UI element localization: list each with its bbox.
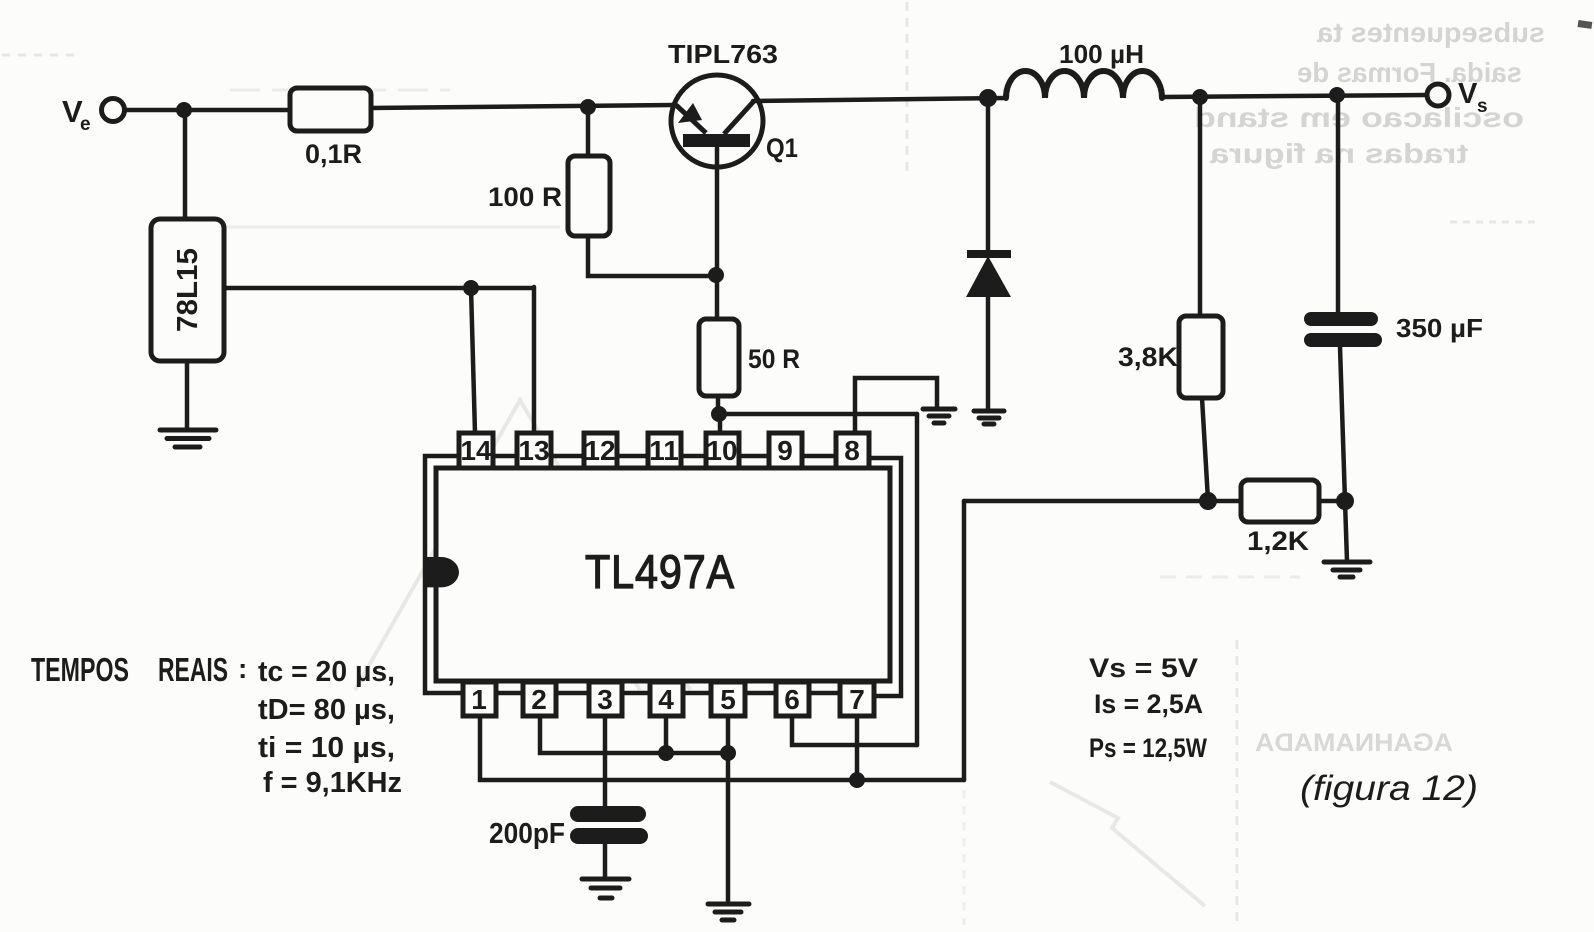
svg-text:100 µH: 100 µH [1059, 39, 1144, 69]
wire: pin 3 drop to 200pF [603, 716, 608, 806]
junction dot 350uF top [1329, 87, 1345, 103]
svg-text:50 R: 50 R [748, 344, 800, 374]
pin 10 box [706, 433, 739, 468]
svg-text:tc = 20 µs,: tc = 20 µs, [258, 656, 395, 688]
pin 2 box [523, 682, 556, 716]
svg-text:ti = 10 µs,: ti = 10 µs, [258, 732, 395, 764]
svg-text:Q1: Q1 [766, 133, 798, 163]
bleed-through faint text top right [1194, 17, 1545, 169]
wire: rail drop to 100R [586, 108, 591, 156]
wire: feedback horizontal to divider node [964, 499, 1208, 504]
svg-text:200pF: 200pF [489, 818, 565, 850]
transistor Q1 base bar [683, 134, 750, 147]
wire: bottom rail pin1 [480, 716, 964, 780]
svg-text:11: 11 [649, 435, 679, 466]
junction dot base node [708, 267, 724, 283]
wire: 3.8K bottom to node [1202, 398, 1208, 500]
wire: pin 8 right jog down to pin 7 right [869, 458, 901, 696]
svg-text:8: 8 [844, 435, 860, 466]
capacitor 350uF plates [1304, 312, 1382, 347]
wire: 200pF to ground [603, 843, 608, 877]
resistor R1 0.1R [290, 88, 371, 131]
svg-text:0,1R: 0,1R [305, 139, 362, 169]
junction dot pin 7 bottom rail [849, 772, 865, 788]
pin 14 box [459, 433, 493, 468]
wire: 350uF node to ground [1345, 501, 1347, 561]
svg-text:12: 12 [584, 435, 615, 466]
svg-text:3,8K: 3,8K [1118, 342, 1179, 372]
svg-text:e: e [80, 114, 91, 135]
svg-text:7: 7 [849, 684, 865, 715]
wire: feedback vertical [962, 501, 967, 780]
svg-text:AGAHNAMADA: AGAHNAMADA [1255, 729, 1453, 757]
pin 5 box [711, 682, 745, 716]
svg-text:f = 9,1KHz: f = 9,1KHz [263, 767, 402, 799]
pin 7 box [840, 682, 874, 716]
svg-text:6: 6 [784, 684, 800, 715]
wire: rail drop to 350uF [1336, 95, 1341, 313]
wire: node to pin 10 [718, 414, 723, 433]
wire: pin 4 drop [664, 716, 669, 753]
wire: top rail left (Ve to 0.1R) [125, 108, 290, 113]
pin 13 box [517, 433, 551, 468]
svg-text:100 R: 100 R [488, 182, 562, 212]
wire: diode to ground [986, 296, 991, 411]
svg-text:78L15: 78L15 [172, 248, 204, 332]
wire: Ve junction drop to 78L15 [183, 110, 188, 219]
svg-text:1: 1 [471, 684, 487, 715]
junction dot divider node [1199, 492, 1217, 510]
svg-text:2: 2 [531, 684, 547, 715]
svg-text:(figura 12): (figura 12) [1300, 769, 1478, 808]
ground 78L15 [160, 430, 216, 447]
svg-text:Ps = 12,5W: Ps = 12,5W [1089, 733, 1207, 763]
svg-text:3: 3 [597, 684, 613, 715]
wire: top rail 0.1R to Q1 [371, 105, 674, 108]
voltage regulator 78L15 [151, 219, 224, 361]
transistor Q1 emitter arrow [678, 103, 702, 123]
svg-text:TEMPOS: TEMPOS [31, 651, 129, 688]
svg-text:V: V [1458, 78, 1478, 110]
wire: Q1 base down to 50R [715, 148, 720, 319]
svg-text:REAIS: REAIS [158, 651, 228, 688]
junction dot 1.2K right [1336, 492, 1354, 510]
junction dot pins 2-4 [658, 745, 674, 761]
wire: 78L15 bottom to ground [185, 361, 190, 429]
wire: 350uF bottom to node [1340, 347, 1345, 501]
svg-text:TIPL763: TIPL763 [668, 39, 778, 69]
wire: pin 2 elbow [540, 716, 728, 753]
pin 12 box [584, 433, 617, 468]
ground 350uF [1324, 562, 1370, 577]
junction dot Ve node [176, 102, 192, 118]
svg-text:10: 10 [706, 435, 737, 466]
diode D1 triangle [966, 256, 1011, 297]
svg-text:1,2K: 1,2K [1247, 526, 1310, 556]
wire: top rail Q1 to inductor [753, 98, 1006, 101]
svg-text:9: 9 [777, 435, 793, 466]
resistor 1.2K [1241, 480, 1319, 522]
ground pin5 [708, 904, 749, 920]
ground diode [974, 411, 1004, 424]
inductor L1 100uH [1006, 71, 1162, 98]
pin 8 box [836, 433, 869, 468]
svg-text:14: 14 [460, 435, 492, 466]
pin 11 box [648, 433, 681, 468]
IC body TL497A [436, 468, 890, 681]
transistor Q1 emitter line [676, 105, 706, 133]
wire: top rail inductor to Vs terminal [1162, 95, 1427, 97]
transistor Q1 collector line [724, 101, 754, 134]
wire: node horizontal to right vertical [718, 412, 917, 417]
wire: 50R bottom to node [716, 396, 721, 414]
wire: rail drop to 3.8K [1198, 97, 1203, 316]
resistor 50R [699, 319, 739, 396]
resistor 100R [568, 156, 610, 236]
capacitor 200pF plates [570, 806, 648, 844]
terminal Ve [102, 99, 125, 122]
transistor Q1 TIPL763 circle [671, 75, 763, 167]
resistor 3.8K [1179, 316, 1223, 398]
junction dot 78L15 output [463, 280, 479, 296]
IC pin1 notch [425, 557, 459, 587]
pin 9 box [769, 433, 802, 468]
svg-text:350 µF: 350 µF [1396, 313, 1483, 343]
junction dot 3.8K top [1192, 89, 1208, 105]
junction dot 50R bottom node [711, 406, 727, 422]
wire: 1.2K right stub [1319, 499, 1345, 504]
wire: pin 8 up to ground [855, 378, 937, 433]
wire: right vertical down to pin 6 level [915, 414, 920, 745]
svg-text:Vs = 5V: Vs = 5V [1089, 653, 1198, 683]
pin 6 box [776, 682, 809, 716]
svg-text:4: 4 [658, 684, 674, 715]
pin 3 box [589, 682, 622, 716]
pin 4 box [650, 682, 683, 716]
terminal Vs [1427, 84, 1449, 106]
wire: pin 7 drop [855, 716, 860, 780]
svg-text::: : [238, 653, 247, 684]
ground 200pF [582, 879, 629, 898]
junction dot pins 2-5 [720, 745, 736, 761]
wire: pin 6 elbow [792, 716, 917, 745]
pin 1 box [463, 682, 496, 716]
ground pin8 net [923, 409, 955, 423]
bleed-through faint diagonal marks center [355, 400, 1205, 906]
svg-text:tD= 80 µs,: tD= 80 µs, [258, 694, 395, 726]
svg-text:subsequentes ta: subsequentes ta [1317, 17, 1545, 48]
diode D1 bar [967, 250, 1011, 258]
svg-text:5: 5 [720, 684, 736, 715]
wire: rail to diode [986, 98, 991, 252]
svg-text:TL497A: TL497A [585, 545, 735, 598]
svg-text:s: s [1477, 96, 1488, 117]
wire: 100R bottom elbow to Q1 base line [588, 236, 716, 276]
stray scanner mark top right [1578, 20, 1593, 29]
junction dot 100R top [580, 99, 596, 115]
svg-text:Is = 2,5A: Is = 2,5A [1094, 689, 1203, 719]
IC pin frame line [425, 456, 866, 693]
wire: 78L15 output to pins 14/13 [224, 287, 534, 433]
svg-text:13: 13 [518, 435, 549, 466]
svg-text:saida. Formas de: saida. Formas de [1297, 57, 1522, 88]
junction dot diode top [979, 89, 997, 107]
wire: 1.2K left stub [1208, 499, 1241, 504]
wire: pin 5 drop to ground [726, 716, 731, 903]
